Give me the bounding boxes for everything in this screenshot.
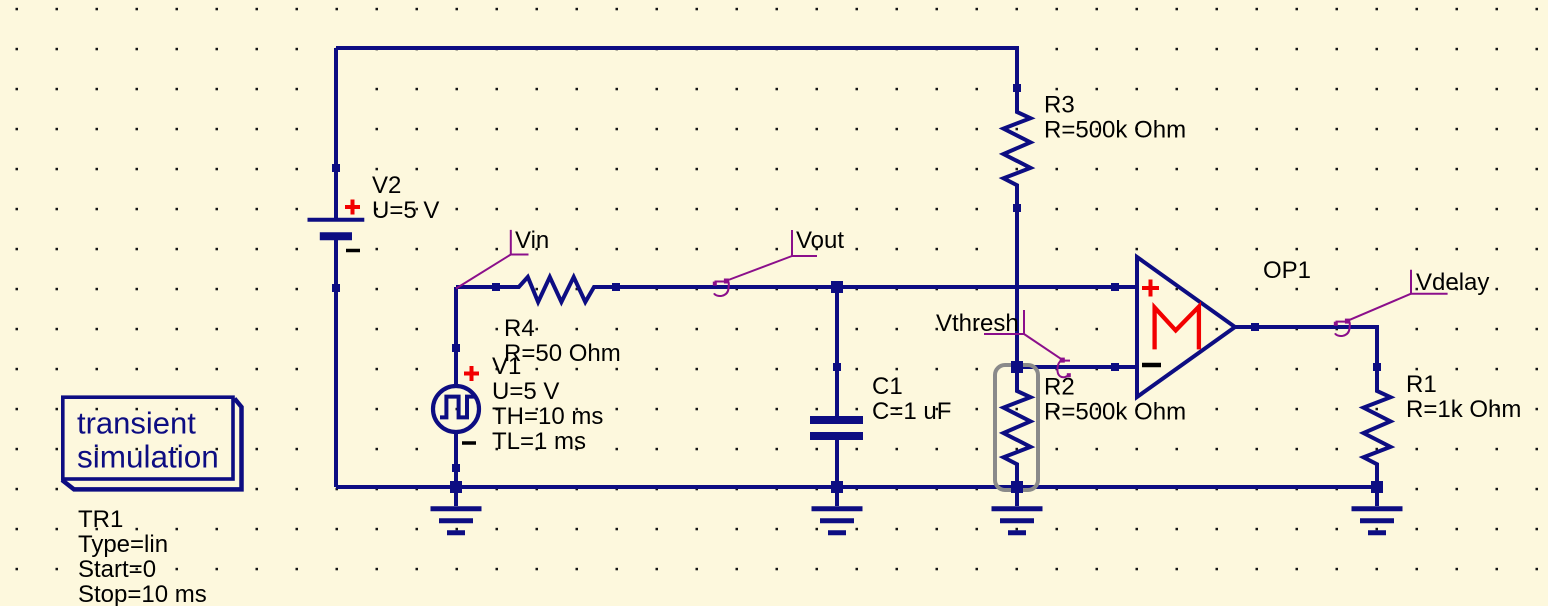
svg-text:R1: R1 <box>1406 371 1437 398</box>
ground node junction at R2 <box>1011 481 1023 493</box>
wire R3 bottom to Vthresh node <box>1015 208 1019 367</box>
svg-text:simulation: simulation <box>77 439 219 475</box>
svg-text:Vdelay: Vdelay <box>1416 269 1489 296</box>
battery V2 minus sign <box>346 249 360 253</box>
junction op-amp output pin <box>1251 323 1259 331</box>
svg-text:R=500k Ohm: R=500k Ohm <box>1044 117 1186 144</box>
wire node Vin corner to V1 <box>454 287 458 348</box>
junction op-amp plus input pin <box>1111 283 1119 291</box>
ground node junction at R1 <box>1371 481 1383 493</box>
wire Vin to R4 <box>456 285 496 289</box>
svg-text:R2: R2 <box>1044 374 1075 401</box>
battery V2 <box>308 168 365 288</box>
node Vout junction <box>831 281 843 293</box>
ground node junction at C1 <box>831 481 843 493</box>
junction R3 bottom pin <box>1013 204 1021 212</box>
battery V2 plus sign <box>345 200 360 215</box>
wire R4 to op-amp plus input <box>616 285 1115 289</box>
junction R4 right pin <box>612 283 620 291</box>
resistor R4 <box>496 277 616 302</box>
ground at V1 <box>431 487 482 533</box>
op-amp M marking <box>1155 307 1199 350</box>
wire V2 top <box>334 48 338 168</box>
svg-text:OP1: OP1 <box>1263 257 1311 284</box>
capacitor C1 <box>810 367 863 487</box>
junction V1 top pin <box>452 344 460 352</box>
pulse source V1 <box>433 348 479 468</box>
svg-text:TR1: TR1 <box>78 506 123 533</box>
junction V1 bottom pin <box>452 464 460 472</box>
svg-text:U=5 V: U=5 V <box>372 197 439 224</box>
op-amp plus marking <box>1142 280 1159 297</box>
svg-text:R=500k Ohm: R=500k Ohm <box>1044 399 1186 426</box>
node label Vout <box>713 230 817 296</box>
svg-text:TH=10 ms: TH=10 ms <box>492 403 603 430</box>
junction V2 bottom pin <box>332 284 340 292</box>
node label Vthresh <box>984 310 1071 377</box>
wire top net V2 to R3 <box>336 48 1017 88</box>
svg-text:Start=0: Start=0 <box>78 556 156 583</box>
op-amp minus marking <box>1142 363 1161 368</box>
op-amp U1 <box>1115 257 1255 397</box>
node Vthresh junction <box>1011 361 1023 373</box>
pulse source V1 minus sign <box>462 441 476 445</box>
pulse source V1 plus sign <box>464 366 479 381</box>
resistor R2 <box>1004 367 1031 487</box>
ground at R1 <box>1352 487 1403 533</box>
svg-text:V2: V2 <box>372 172 401 199</box>
node label Vin <box>456 230 529 289</box>
resistor R1 <box>1364 367 1391 487</box>
svg-text:R=50 Ohm: R=50 Ohm <box>504 340 621 367</box>
transient simulation box <box>62 397 242 489</box>
ground at C1 <box>812 487 863 533</box>
svg-text:transient: transient <box>77 406 196 441</box>
svg-text:U=5 V: U=5 V <box>492 378 559 405</box>
svg-text:Vthresh: Vthresh <box>936 310 1019 337</box>
wire op-amp output to R1 <box>1255 327 1377 367</box>
junction R4 left pin <box>492 283 500 291</box>
svg-text:Vout: Vout <box>796 227 844 254</box>
wire Vout down to C1 <box>835 287 839 367</box>
resistor R3 <box>1004 88 1031 208</box>
wire V2 bottom to bus <box>334 288 338 487</box>
svg-text:Vin: Vin <box>515 227 549 254</box>
ground node junction at V1 <box>450 481 462 493</box>
svg-text:C=1 uF: C=1 uF <box>872 398 951 425</box>
junction C1 top pin <box>833 363 841 371</box>
selection box around R2 <box>995 365 1038 490</box>
svg-text:R4: R4 <box>504 315 535 342</box>
svg-text:R3: R3 <box>1044 92 1075 119</box>
wire V1 bottom to bus <box>454 468 458 487</box>
junction R1 top pin <box>1373 363 1381 371</box>
svg-text:Stop=10 ms: Stop=10 ms <box>78 581 207 606</box>
node label Vdelay <box>1334 270 1448 336</box>
wire Vthresh to op-amp minus input <box>1017 365 1115 369</box>
svg-text:Type=lin: Type=lin <box>78 531 168 558</box>
svg-text:TL=1 ms: TL=1 ms <box>492 428 586 455</box>
svg-text:R=1k Ohm: R=1k Ohm <box>1406 396 1521 423</box>
svg-text:C1: C1 <box>872 373 903 400</box>
junction V2 top pin <box>332 164 340 172</box>
ground at R2 <box>992 487 1043 533</box>
junction op-amp minus input pin <box>1111 363 1119 371</box>
wire bottom ground bus <box>336 485 1377 489</box>
junction R3 top pin <box>1013 84 1021 92</box>
